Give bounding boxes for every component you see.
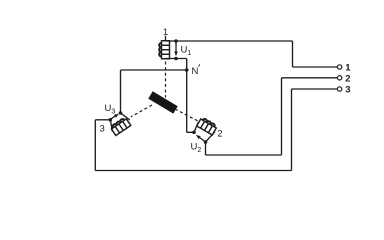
wire (winding U3 out to left) <box>95 119 110 121</box>
voltage arrow U1 <box>175 43 177 52</box>
winding U1 terminal stub <box>165 36 167 41</box>
wire (corner down to line-1 level) <box>292 41 294 67</box>
svg-text:3: 3 <box>100 124 105 135</box>
winding U3 <box>110 117 131 136</box>
node N junction <box>185 68 189 72</box>
wire (bottom run to right) <box>206 154 282 156</box>
svg-text:1: 1 <box>345 63 351 74</box>
wire (winding U1 top to corner) <box>166 40 293 42</box>
winding U1 <box>159 41 169 59</box>
wire (connector to winding U2 outer end) <box>206 132 215 142</box>
terminal 1 <box>337 65 341 69</box>
svg-text:N: N <box>192 66 199 77</box>
wire (left side down) <box>94 120 96 171</box>
svg-text:1: 1 <box>163 27 168 38</box>
voltage arrow U3 <box>111 116 115 119</box>
wire (corner to U2 arrow inner junction) <box>187 131 194 133</box>
svg-text:2: 2 <box>217 129 222 140</box>
wire (winding U2 outer down) <box>205 142 207 155</box>
terminal 2 <box>337 76 341 80</box>
wire (up to line-2 level) <box>281 78 283 155</box>
wire (connector to winding U2 inner end) <box>194 122 198 132</box>
voltage arrow U2 <box>200 138 205 141</box>
svg-text:U2: U2 <box>191 142 202 155</box>
axis line (phase 3, dashed) <box>131 105 152 117</box>
wire (down to winding U2 corner) <box>186 59 188 133</box>
wire (node N horizontal) <box>121 69 187 71</box>
terminal 3 <box>337 87 341 91</box>
junction (U3 arrow outer) <box>109 118 113 122</box>
rotor bar <box>148 91 177 113</box>
svg-text:U1: U1 <box>181 45 192 58</box>
wire (to terminal 2) <box>282 77 338 79</box>
wire (winding U1 bottom) <box>166 58 187 60</box>
junction (U1 arrow top) <box>174 39 178 43</box>
wire (connector to winding U3 outer end) <box>110 120 112 132</box>
svg-text:2: 2 <box>345 74 350 85</box>
svg-text:3: 3 <box>345 85 350 96</box>
wire (bottom run) <box>95 170 291 172</box>
wire (to terminal 3) <box>292 88 338 90</box>
winding U2 <box>197 117 218 135</box>
junction (U1 arrow bottom) <box>174 57 178 61</box>
axis line (phase 2, dashed) <box>175 109 198 121</box>
axis line (phase 1, dashed) <box>165 62 167 98</box>
wire (connector to winding U3 inner end) <box>121 113 130 120</box>
junction (U3 arrow inner) <box>119 111 123 115</box>
wire (down to winding U3) <box>120 70 122 113</box>
wire (right side up to line-3 level) <box>291 89 293 171</box>
wire (to terminal 1) <box>293 66 338 68</box>
junction (U2 arrow inner) <box>192 131 196 135</box>
prime tick after N <box>199 64 200 66</box>
svg-text:U3: U3 <box>105 103 116 116</box>
junction (U2 arrow outer) <box>204 140 208 144</box>
